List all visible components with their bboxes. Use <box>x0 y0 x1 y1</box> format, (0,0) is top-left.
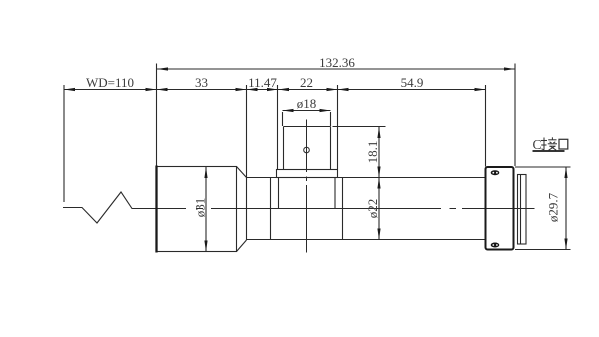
svg-text:ø31: ø31 <box>193 198 208 218</box>
svg-text:ø22: ø22 <box>365 199 380 219</box>
dimension 132.36 <box>157 55 515 71</box>
lens front cylinder D31 <box>157 166 237 253</box>
main barrel <box>247 178 486 240</box>
hanzi KOU (口) drawn strokes <box>559 139 568 149</box>
svg-text:11.47: 11.47 <box>248 75 277 90</box>
dimension 18.1 <box>333 127 386 240</box>
dimension 11.47 <box>247 75 279 91</box>
knob base plate <box>277 170 338 178</box>
break zigzag wire <box>63 192 156 223</box>
extension line knob right <box>337 85 339 169</box>
svg-text:132.36: 132.36 <box>319 55 355 70</box>
svg-text:ø18: ø18 <box>297 96 317 111</box>
dimension D31 <box>193 167 208 252</box>
dimension WD=110 <box>64 75 486 91</box>
C-mount flange <box>486 167 514 250</box>
dimension D18 <box>283 96 331 126</box>
hanzi JIE (接) drawn strokes <box>541 137 557 150</box>
extension line knob left <box>277 85 279 169</box>
svg-text:ø29.7: ø29.7 <box>546 192 561 222</box>
dimension D22 <box>365 178 381 240</box>
dimension 33 <box>157 75 247 91</box>
barrel joint <box>270 178 272 240</box>
object plane line <box>63 85 65 202</box>
svg-text:22: 22 <box>300 75 313 90</box>
extension line flange left <box>485 85 487 167</box>
svg-text:33: 33 <box>195 75 208 90</box>
knob pocket walls <box>279 178 336 209</box>
svg-text:C: C <box>533 137 542 152</box>
barrel joint right of knob <box>342 178 344 240</box>
dimension 54.9 <box>338 75 486 91</box>
set screw top <box>491 170 500 175</box>
svg-text:54.9: 54.9 <box>401 75 424 90</box>
label C-mount (C接口) <box>533 137 568 152</box>
extension line taper end <box>246 85 248 177</box>
C-mount thread barrel <box>518 175 527 245</box>
dimension 22 <box>278 75 338 91</box>
centerline <box>157 208 535 210</box>
svg-text:18.1: 18.1 <box>365 141 380 164</box>
extension line front face <box>156 64 158 167</box>
svg-text:WD=110: WD=110 <box>86 75 134 90</box>
extension line flange right <box>514 64 516 167</box>
knob centerline <box>306 120 308 253</box>
knob box <box>284 127 331 170</box>
underline <box>533 150 565 152</box>
taper cone <box>237 167 247 252</box>
dimension D29.7 <box>515 167 571 250</box>
knob screw circle <box>304 147 310 153</box>
set screw bottom <box>491 243 500 248</box>
